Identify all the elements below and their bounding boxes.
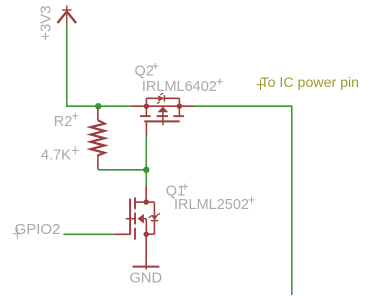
- junction node R2 top: [95, 103, 101, 109]
- Q2 value IRLML6402: [142, 79, 223, 96]
- wire node to Q1 drain: [145, 170, 147, 187]
- Q1 value IRLML2502: [174, 197, 255, 213]
- transistor Q1: [114, 186, 160, 269]
- R2 value 4.7K: [41, 146, 79, 163]
- junction node gate/drain: [143, 167, 149, 173]
- svg-text:IRLML6402: IRLML6402: [142, 79, 217, 95]
- wire supply to node: [67, 26, 131, 107]
- svg-text:R2: R2: [54, 114, 73, 130]
- supply +3V3: [58, 6, 77, 27]
- wire R2 bottom to gate node: [98, 169, 146, 171]
- svg-text:Q2: Q2: [135, 64, 154, 80]
- ground: [133, 266, 160, 268]
- svg-text:To IC power pin: To IC power pin: [261, 75, 360, 91]
- net label GPIO2: [13, 221, 61, 239]
- wire GPIO2 to Q1 gate: [63, 233, 114, 235]
- svg-text:GND: GND: [130, 270, 163, 286]
- R2 name label: [54, 113, 78, 130]
- net label To IC power pin: [257, 75, 359, 91]
- transistor Q2: [131, 93, 194, 136]
- resistor R2: [91, 107, 105, 170]
- wire Q2 drain to output: [194, 106, 292, 295]
- wire Q2 gate net: [145, 136, 147, 170]
- svg-text:IRLML2502: IRLML2502: [174, 197, 249, 213]
- Q1 name label: [166, 183, 188, 199]
- Q2 name label: [135, 63, 159, 80]
- svg-text:+3V3: +3V3: [37, 5, 54, 40]
- svg-text:4.7K: 4.7K: [41, 147, 71, 163]
- svg-text:GPIO2: GPIO2: [15, 221, 61, 238]
